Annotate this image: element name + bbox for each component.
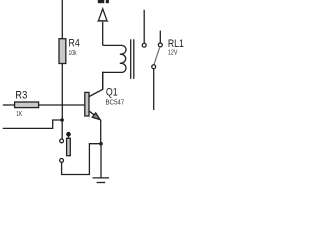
svg-text:1K: 1K: [16, 109, 22, 118]
wire top to R4: [61, 0, 63, 40]
power +12V arrow base bar: [97, 20, 108, 22]
button S1 stem: [68, 137, 70, 139]
relay contact pole terminal: [152, 65, 156, 69]
node emitter junction: [99, 142, 103, 146]
relay coil RL1 winding: [103, 45, 126, 89]
wire lower-left step: [3, 120, 63, 128]
transistor Q1 base bar: [85, 92, 89, 116]
wire junction to button: [61, 120, 63, 139]
transistor Q1 emitter arrow: [92, 113, 100, 120]
relay contact blade: [154, 47, 160, 65]
wire emitter down: [100, 120, 102, 144]
cropped label top: [98, 0, 105, 3]
resistor R4: [59, 39, 66, 64]
power +12V arrow stem: [102, 9, 104, 46]
transistor Q1 collector lead: [89, 72, 103, 97]
transistor Q1 emitter lead: [89, 111, 100, 119]
relay coil core lines: [130, 39, 132, 79]
wire pole down: [153, 69, 155, 110]
svg-text:R3: R3: [15, 89, 27, 101]
resistor R3: [15, 102, 39, 108]
node junction at button top: [60, 118, 64, 122]
relay contact left terminal: [142, 43, 146, 47]
relay contact left stub: [143, 10, 145, 43]
power +12V arrow head: [98, 9, 107, 21]
relay contact right terminal: [158, 43, 162, 47]
ground: [93, 177, 110, 179]
button S1 terminal top: [60, 139, 64, 143]
wire button bottom to emitter node: [62, 144, 101, 175]
wire R3 left lead: [3, 104, 15, 106]
svg-text:10k: 10k: [69, 48, 77, 57]
wire R4 to base junction: [61, 64, 63, 121]
wire to ground: [100, 144, 102, 178]
svg-text:12V: 12V: [168, 47, 178, 56]
relay contact right stub: [159, 31, 161, 43]
svg-text:BC547: BC547: [106, 97, 125, 106]
wire base: [39, 104, 85, 106]
button S1 terminal bottom: [60, 159, 64, 163]
button S1 cap: [66, 132, 71, 137]
button S1 plunger bar: [67, 138, 71, 155]
